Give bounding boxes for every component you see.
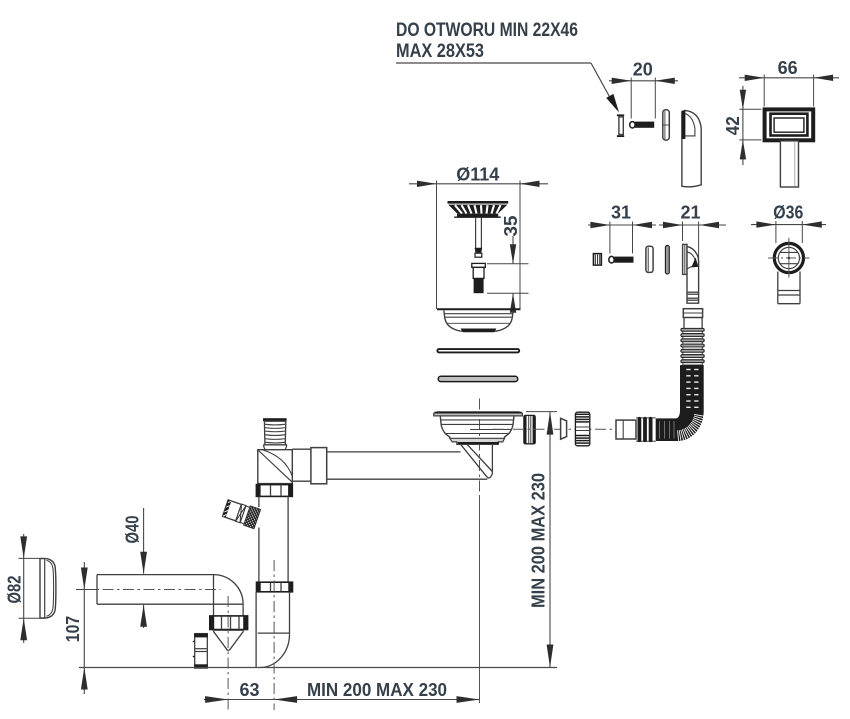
overflow rosette 66x42 [765,109,814,140]
svg-text:Ø82: Ø82 [5,576,25,604]
reducer sleeve [193,634,208,669]
dimension 35 [487,216,529,313]
hose top collar [683,309,702,318]
strainer stem [475,218,483,258]
dimension Ø114 [409,165,548,310]
overflow front cover [682,110,702,186]
standpipe upper section [259,496,288,582]
dimension MIN 200 MAX 230 (vertical) [526,412,557,668]
hose elbow (corrugated bend) [676,411,705,442]
svg-text:21: 21 [680,202,700,222]
svg-text:20: 20 [633,59,653,79]
cone adapter [213,630,245,650]
elbow tube (front) [778,272,800,304]
drain body flange [434,412,523,416]
washer with rim [646,246,653,272]
dimension MIN 200 MAX 230 (bottom) [274,680,479,703]
dimension Ø36 [751,202,826,243]
overflow elbow (front view) [768,238,810,278]
tee inlet tailpiece (ribbed) [263,418,287,451]
svg-text:MAX 28X53: MAX 28X53 [396,41,484,62]
coupling ring [311,448,327,484]
svg-text:63: 63 [239,680,259,700]
svg-text:MIN 200 MAX 230: MIN 200 MAX 230 [529,473,549,608]
dimension 66 [739,58,839,106]
svg-text:35: 35 [501,216,521,237]
baseline (worktop reference) [79,667,557,669]
svg-text:107: 107 [63,616,83,643]
tee lock nut [256,485,292,497]
mounting plate (edge view) [617,115,624,136]
dishwasher branch (45&#176;) [222,499,283,537]
tee outlet stub [292,449,311,481]
tee body [258,450,293,484]
hose washer [561,418,567,439]
dimension 21 [659,202,726,259]
elbow nut [210,616,248,630]
fixing bolt (35mm) [472,263,486,293]
blanking cap &#216;82 [40,559,56,618]
pipe elbow (down) [214,575,244,616]
overflow elbow (side view) [683,244,699,303]
drain body centerline [479,399,481,498]
gasket (thick) [438,376,518,381]
washer (oval cup) [663,110,670,140]
inlet pipe (horizontal) [97,575,243,605]
outlet horizontal centerline [493,428,634,430]
gasket (thin) [437,349,519,352]
hose end cuff [616,420,636,439]
horizontal pipe to drain [327,452,488,479]
dimension 20 [609,59,678,118]
svg-text:42: 42 [723,116,743,135]
dimension Ø82 [5,534,45,643]
dimension 31 [588,202,656,253]
drain body bowl [440,417,514,445]
rosette stem [780,141,798,187]
dimension Ø40 [123,508,148,628]
leader line to mounting plate [396,63,619,113]
square nut [593,254,601,266]
hose smooth tube [684,318,702,329]
screw (20mm) [630,122,655,128]
hose light corrugation (vertical) [681,328,704,365]
svg-text:Ø114: Ø114 [456,165,499,185]
cone centerline [227,596,229,710]
pipe centerline [82,589,221,591]
dimension 107 [63,562,97,694]
svg-text:66: 66 [778,58,798,78]
svg-text:31: 31 [611,202,631,222]
hose light corrugation (horizontal) [636,417,656,442]
svg-text:DO OTWORU MIN 22X46: DO OTWORU MIN 22X46 [396,20,578,41]
screw (31mm) [609,256,634,263]
dimension 63 [204,680,274,703]
hose dark corrugation (vertical) [680,365,704,411]
hose dark corrugation (horizontal) [656,418,676,441]
strainer cap (mushroom) [448,202,509,217]
drain outlet funnel [461,445,492,478]
dimension 42 [723,86,762,165]
strainer basket (sink flange) [437,309,521,332]
flat gasket washer [665,245,669,274]
knurled nut [575,412,589,446]
standpipe nut [257,582,293,592]
svg-text:Ø40: Ø40 [123,516,143,544]
note DO OTWORU [396,20,578,62]
standpipe centerline [273,560,275,710]
svg-text:MIN 200 MAX 230: MIN 200 MAX 230 [307,680,447,700]
svg-text:Ø36: Ø36 [773,202,803,222]
drain outlet nut [524,415,535,443]
standpipe lower + outlet elbow [256,592,289,668]
